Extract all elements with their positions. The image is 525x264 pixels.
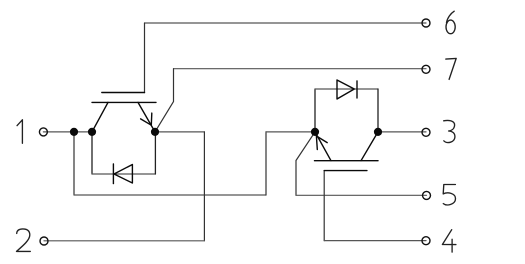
label 7 bbox=[446, 58, 456, 79]
label 6 bbox=[446, 11, 455, 33]
label 2 bbox=[17, 229, 31, 252]
wire terminal 1 bus bbox=[43, 131, 92, 133]
junction node 1 bbox=[70, 128, 78, 136]
terminal 6 circle bbox=[422, 19, 430, 27]
terminal 1 circle bbox=[39, 128, 47, 136]
diode D1 (left freewheeling diode) bbox=[113, 164, 132, 184]
label 3 bbox=[444, 120, 455, 142]
wire emitter node of Q2 to terminal 5 bbox=[296, 132, 427, 195]
terminal 5 circle bbox=[423, 191, 431, 199]
label 5 bbox=[443, 185, 455, 205]
wire right diode loop bbox=[315, 89, 378, 132]
junction node 3 (emitter of Q1) bbox=[151, 128, 159, 136]
label 1 bbox=[17, 120, 22, 144]
wire left diode loop bbox=[92, 132, 155, 174]
wire emitter node of Q1 to terminal 2 bbox=[44, 132, 204, 241]
terminal 3 circle bbox=[422, 128, 430, 136]
junction node 2 (collector of Q1) bbox=[88, 128, 96, 136]
wire terminal 7 to emitter node of Q1 bbox=[155, 69, 426, 132]
wire terminal 6 to gate of Q1 bbox=[145, 23, 427, 93]
transistor Q2 (right IGBT) bbox=[315, 132, 379, 171]
transistor Q1 (left IGBT) bbox=[92, 93, 156, 132]
wire right collector node to terminal 3 bbox=[378, 131, 426, 133]
junction node 5 (collector of Q2) bbox=[374, 128, 382, 136]
junction node 4 (emitter of Q2) bbox=[311, 128, 319, 136]
terminal 2 circle bbox=[40, 237, 48, 245]
diode D2 (right freewheeling diode) bbox=[337, 80, 357, 99]
terminal 7 circle bbox=[422, 65, 430, 73]
wire node 1 down and across to emitter node of Q2 bbox=[74, 132, 315, 195]
terminal 4 circle bbox=[422, 237, 430, 245]
wire gate of Q2 to terminal 4 bbox=[324, 171, 426, 241]
label 4 bbox=[442, 230, 456, 252]
